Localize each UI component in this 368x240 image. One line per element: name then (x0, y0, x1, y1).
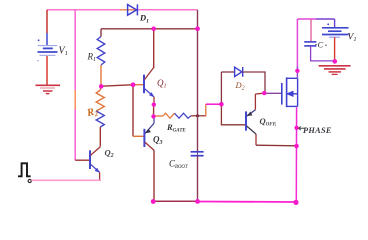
wire top rail V1+ to D1 to corner (47, 9, 198, 11)
resistor R_GATE (154, 115, 164, 117)
wire bottom rail right magenta (198, 201, 297, 204)
resistor Rb (97, 37, 105, 66)
svg-text:C: C (318, 40, 324, 50)
wire Q3 base orange (133, 135, 144, 137)
wire y85 to Q1 base node (101, 85, 133, 86)
wire D2 left net (220, 72, 222, 104)
wire corner top pink down at x197.5 (197, 10, 199, 29)
wire D2 right to gate node (243, 72, 265, 93)
wire vertical pink x75 (74, 10, 76, 160)
battery V1 left (38, 46, 58, 56)
transistor Q2 (90, 147, 100, 180)
input terminal (28, 179, 31, 182)
MOSFET M1 (282, 77, 298, 107)
wire Q1 emitter node to Q3 (153, 105, 155, 117)
wire Rb bottom lead (100, 65, 102, 86)
wire node x133 down (132, 85, 134, 137)
wire Rb top lead (100, 29, 102, 37)
battery V1 left bottom lead (46, 56, 48, 85)
input pulse symbol (18, 163, 31, 176)
wire R2 bottom to Q2 collector (99, 127, 101, 147)
wire input pink (31, 179, 101, 181)
svg-text:PHASE: PHASE (303, 126, 332, 135)
wire orange tint segment on pink vertical (74, 90, 76, 109)
resistor R2 (96, 90, 104, 111)
transistor Q1 (144, 67, 154, 105)
battery V1 right top lead (334, 19, 336, 27)
ground right (319, 66, 351, 75)
wire top right loop top (297, 18, 316, 20)
capacitor C bottom lead (311, 46, 335, 61)
wire R_GATE up to D2 node (205, 104, 207, 116)
wire orange segment through D1 (120, 9, 137, 11)
capacitor C_BOOT lead tick (197, 152, 199, 156)
capacitor C_BOOT (191, 152, 204, 156)
wire magenta to dot 221 (206, 103, 222, 105)
junction blob at crossing (196, 114, 199, 117)
wire x197.5 C_BOOT net vertical (197, 29, 199, 151)
wire drain up (296, 19, 298, 66)
wire rail y29 (101, 28, 198, 30)
wire Q_OFF collector to phase (256, 144, 296, 147)
diode D1 (128, 4, 138, 15)
battery V1 left top lead (46, 10, 48, 33)
transistor Q_OFF (246, 93, 264, 145)
wire source down PHASE (295, 107, 297, 202)
wire C_BOOT bottom lead (197, 156, 199, 202)
wire bottom rail left (153, 200, 198, 202)
battery V1 right bottom lead (334, 37, 336, 61)
wire Q2 base from pink vertical (75, 159, 89, 161)
transistor Q3 (144, 116, 154, 150)
wire dot101 to R2 (99, 86, 102, 90)
capacitor C (304, 42, 316, 46)
ground left (36, 85, 61, 93)
node dots (99, 26, 337, 205)
wire Q1 base orange (133, 84, 144, 86)
battery V1 right (322, 28, 349, 37)
diode D2 (235, 67, 243, 77)
wire gate lead (264, 92, 281, 94)
wire Q1 collector vertical (153, 29, 155, 68)
wire Q3 collector down (153, 150, 155, 201)
capacitor C top lead (310, 19, 312, 41)
wire Q_OFF base net (221, 104, 245, 125)
